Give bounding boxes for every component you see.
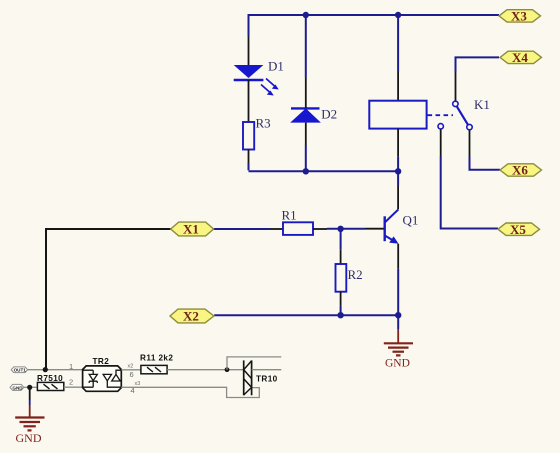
node top-relay junction <box>395 12 401 18</box>
LED D1 <box>234 65 279 96</box>
svg-text:OUT1: OUT1 <box>14 368 27 373</box>
node GND junction <box>27 385 32 390</box>
svg-text:X4: X4 <box>512 50 528 65</box>
relay coil K1 <box>369 101 426 129</box>
relay dashed link <box>428 114 454 116</box>
wire top X3 net <box>249 14 500 78</box>
node base junction <box>337 226 343 232</box>
ground bottom-left <box>15 418 44 431</box>
transistor Q1 <box>385 210 399 244</box>
node top-D2 junction <box>303 12 309 18</box>
node TR10 junction <box>225 367 230 372</box>
wire TR2 pin6 to R11 <box>121 369 141 371</box>
svg-text:X5: X5 <box>510 222 526 237</box>
svg-text:D2: D2 <box>321 107 337 122</box>
wire TR10 top loop <box>227 357 281 370</box>
wire X1 to R1 <box>214 228 270 230</box>
svg-text:X2: X2 <box>183 309 199 324</box>
wire R1 to base node <box>313 228 327 230</box>
port OUT1 small <box>11 367 27 373</box>
wire R2 bottom pin <box>340 292 342 306</box>
wire R3 bottom <box>248 150 250 164</box>
node relay bottom junction <box>395 168 401 174</box>
svg-text:R1: R1 <box>282 208 297 223</box>
wire emitter pin <box>397 244 399 269</box>
switch contact NO right <box>467 124 472 129</box>
svg-text:x2: x2 <box>128 364 134 370</box>
svg-text:4: 4 <box>131 386 135 395</box>
resistor R7510 <box>37 382 63 390</box>
wire D2 pins <box>305 78 307 145</box>
svg-text:GND: GND <box>385 358 410 370</box>
svg-text:x3: x3 <box>135 381 141 387</box>
wire to ground <box>397 315 399 329</box>
wire D1-R3 pin <box>248 80 250 122</box>
svg-text:K1: K1 <box>474 97 490 112</box>
wire D1 anode pin <box>248 37 250 66</box>
svg-text:TR2: TR2 <box>93 357 110 366</box>
ground Q1 emitter <box>384 343 413 355</box>
svg-text:2: 2 <box>69 378 73 387</box>
port X2 <box>170 309 214 324</box>
node OUT1 junction <box>43 367 48 372</box>
resistor R11 <box>141 365 167 373</box>
diode D2 <box>290 108 321 122</box>
triac TR10 <box>244 360 252 395</box>
svg-text:GND: GND <box>12 385 23 390</box>
svg-text:X3: X3 <box>511 9 527 24</box>
svg-text:R3: R3 <box>256 116 271 131</box>
wire GND tag to R7510 <box>24 386 38 388</box>
node D2 bottom junction <box>303 168 309 174</box>
switch contact common <box>453 101 458 106</box>
switch arm <box>457 106 468 125</box>
wire R11 to TR10 <box>167 369 244 371</box>
svg-text:D1: D1 <box>268 59 284 74</box>
svg-text:TR10: TR10 <box>256 375 278 384</box>
svg-text:6: 6 <box>130 370 134 379</box>
svg-text:X1: X1 <box>183 222 199 237</box>
wire TR2 pin4 step <box>121 387 259 397</box>
wire GND drop <box>29 388 31 400</box>
optocoupler TR2 <box>83 366 122 391</box>
node emitter junction <box>395 312 401 318</box>
wire OUT1 net <box>28 369 83 371</box>
wire relay top pin <box>397 72 399 101</box>
wire X5 net <box>440 129 442 156</box>
wire TR10 right <box>252 369 282 371</box>
wire R7510 to TR2 pin2 <box>64 386 83 388</box>
wire Q1 base pin <box>365 228 385 230</box>
wire X4 net <box>456 57 500 72</box>
port X1 <box>171 222 214 237</box>
svg-text:GND: GND <box>16 431 42 445</box>
svg-text:X6: X6 <box>512 163 528 178</box>
wire collector pin <box>397 186 399 210</box>
svg-text:Q1: Q1 <box>403 213 419 228</box>
svg-text:R2: R2 <box>348 267 363 282</box>
port X4 <box>500 50 542 65</box>
wire relay bottom pin <box>397 129 399 157</box>
resistor R1 <box>283 222 313 235</box>
resistor R2 <box>336 264 347 292</box>
node R2 bottom junction <box>337 312 343 318</box>
port X6 <box>500 163 542 178</box>
wire X2 net <box>214 314 398 316</box>
switch contact NC left <box>438 124 443 129</box>
port GND small <box>10 384 24 390</box>
svg-text:R11 2k2: R11 2k2 <box>140 354 173 363</box>
wire R2 branch <box>340 229 342 250</box>
resistor R3 <box>243 122 254 150</box>
wire X1 to left rail (black) <box>46 229 171 369</box>
port X3 <box>499 9 541 24</box>
port X5 <box>498 222 540 237</box>
wire bottom of D1/D2 <box>249 170 399 172</box>
svg-text:1: 1 <box>69 362 73 371</box>
wire X6 net <box>469 130 471 156</box>
